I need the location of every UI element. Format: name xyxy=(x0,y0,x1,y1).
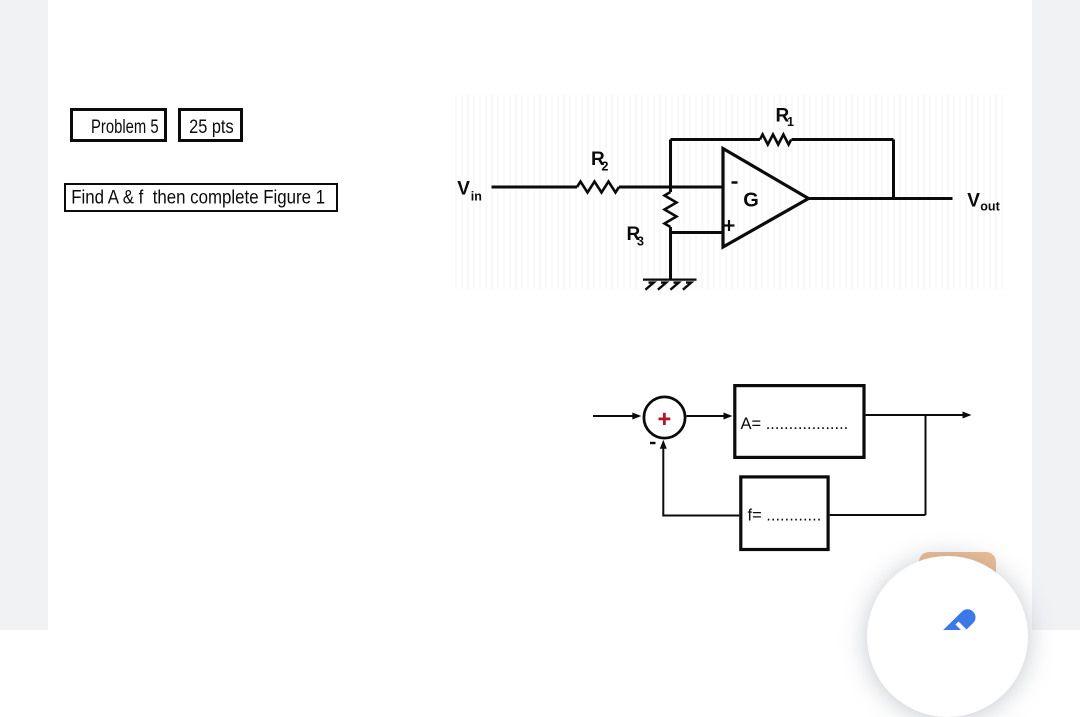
node Vout label xyxy=(967,190,1000,213)
wire block A output xyxy=(866,414,963,416)
25 pts label box xyxy=(178,108,243,142)
wire op-amp output to Vout xyxy=(809,197,953,200)
node junction wire up to feedback xyxy=(669,140,672,193)
wire R3 to non-inverting input xyxy=(671,227,724,233)
node Vin label xyxy=(457,178,482,203)
resistor R3 (vertical) xyxy=(665,192,677,227)
Problem 5 label box xyxy=(70,108,167,142)
resistor R1 value label xyxy=(776,105,795,129)
wire feedback top left segment xyxy=(671,138,761,141)
resistor R1 xyxy=(760,135,791,145)
wire feedback down to output xyxy=(892,140,895,199)
resistor R2 value label xyxy=(591,149,609,174)
wire Vin to R2 xyxy=(492,186,578,189)
instruction box: Find A & f then complete Figure 1 xyxy=(64,183,338,212)
right gray margin band xyxy=(1032,0,1080,630)
summing plus sign (red) xyxy=(659,413,671,425)
block f xyxy=(741,477,828,550)
resistor R2 xyxy=(577,182,619,193)
corner peach card xyxy=(919,552,996,598)
left gray margin band xyxy=(0,0,48,630)
wire summing junction to block A xyxy=(687,415,727,417)
wire feedback to block f xyxy=(830,514,926,516)
summing junction xyxy=(644,397,685,438)
figure 1: input arrow xyxy=(593,415,634,417)
op-amp U1 xyxy=(723,149,809,248)
block A xyxy=(735,386,864,458)
wire block f to summing junction xyxy=(663,444,739,516)
wire output junction down xyxy=(925,415,927,515)
wire to ground xyxy=(669,233,672,280)
wire feedback top right segment xyxy=(792,138,894,141)
op-amp inverting pin mark xyxy=(732,181,738,184)
floating edit button xyxy=(867,556,1028,717)
summing minus sign xyxy=(650,442,656,444)
ground xyxy=(643,280,697,290)
op-amp non-inverting pin mark xyxy=(724,220,735,231)
striped whiteboard background xyxy=(451,95,1005,289)
wire R2 to op-amp inverting input xyxy=(619,186,723,189)
resistor R3 value label xyxy=(627,224,645,248)
